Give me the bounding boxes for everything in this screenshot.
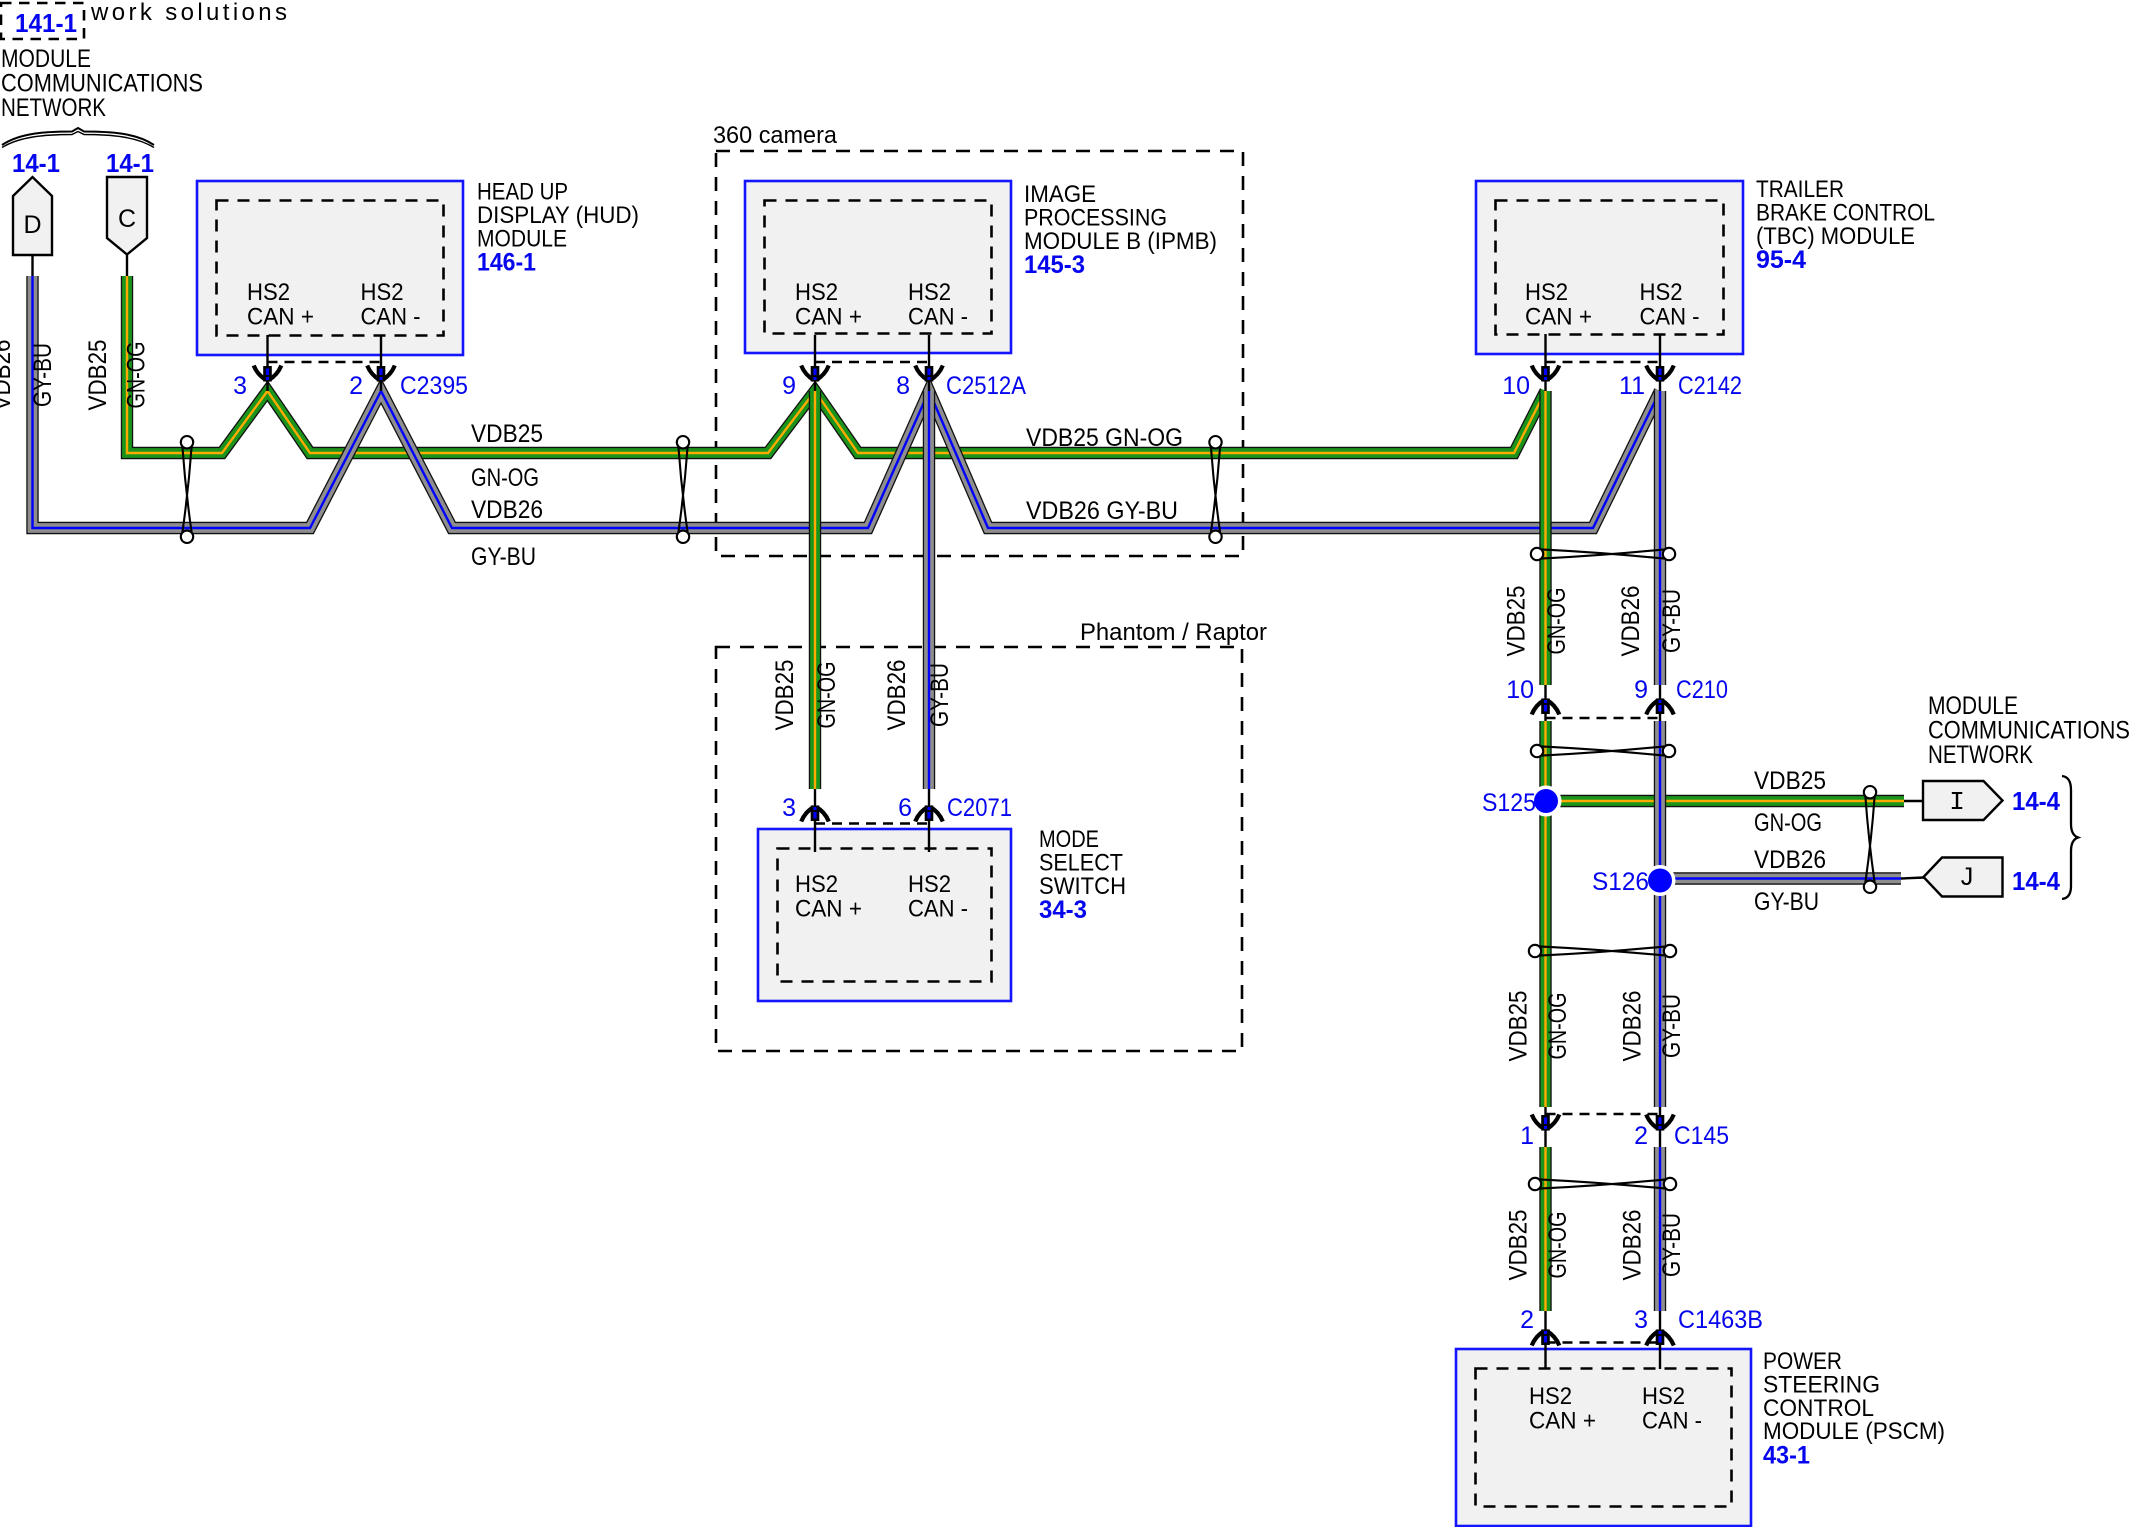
svg-text:GN-OG: GN-OG bbox=[1543, 588, 1571, 655]
splice S125 bbox=[1531, 786, 1562, 817]
off-page connector D bbox=[13, 177, 52, 255]
wire VDB25 GN-OG drop to mode select switch bbox=[809, 391, 821, 789]
svg-text:360 camera: 360 camera bbox=[713, 122, 838, 149]
connector C2512A dashed link bbox=[815, 361, 929, 363]
svg-text:GN-OG: GN-OG bbox=[1544, 993, 1572, 1060]
svg-text:VDB26: VDB26 bbox=[1619, 991, 1647, 1062]
svg-text:146-1: 146-1 bbox=[477, 249, 536, 277]
svg-text:3: 3 bbox=[1634, 1306, 1648, 1334]
connector C2071 dashed link bbox=[815, 822, 929, 824]
svg-text:C2395: C2395 bbox=[400, 372, 468, 400]
module TRAILER BRAKE CONTROL (TBC) box bbox=[1476, 181, 1743, 354]
connector C210 pin 10 terminal arrow bbox=[1532, 699, 1560, 715]
svg-text:GY-BU: GY-BU bbox=[1658, 589, 1686, 653]
off-page connector C bbox=[107, 177, 147, 255]
connector C2512A pin 8 terminal arrow bbox=[915, 366, 943, 382]
wire VDB25 GN-OG segment C210 to C145 bbox=[1539, 721, 1551, 1107]
dashed region box 360 camera bbox=[716, 151, 1243, 556]
svg-text:GY-BU: GY-BU bbox=[1658, 994, 1686, 1058]
svg-text:CAN -: CAN - bbox=[1642, 1408, 1702, 1435]
svg-text:14-4: 14-4 bbox=[2012, 786, 2060, 816]
label MODULE COMMUNICATIONS NETWORK right bbox=[1928, 692, 2130, 769]
connector C lead wire bbox=[126, 255, 128, 277]
svg-text:C210: C210 bbox=[1676, 676, 1728, 704]
svg-text:34-3: 34-3 bbox=[1039, 896, 1087, 924]
svg-text:C2512A: C2512A bbox=[946, 372, 1026, 400]
svg-text:VDB25: VDB25 bbox=[1503, 586, 1531, 657]
svg-text:VDB25: VDB25 bbox=[771, 660, 799, 731]
TBC pin label HS2 CAN - bbox=[1640, 279, 1700, 331]
svg-text:9: 9 bbox=[782, 372, 796, 400]
TBC pin label HS2 CAN + bbox=[1525, 279, 1592, 331]
svg-text:VDB26: VDB26 bbox=[883, 660, 911, 731]
twisted pair symbol below C210 bbox=[1531, 745, 1675, 757]
off-page connector I bbox=[1923, 781, 2003, 820]
svg-text:GY-BU: GY-BU bbox=[926, 663, 954, 727]
svg-text:VDB26: VDB26 bbox=[471, 496, 543, 524]
svg-text:HS2: HS2 bbox=[908, 871, 951, 898]
connector C2512A pin 9 lead bbox=[814, 335, 816, 391]
connector C2142 pin 11 terminal arrow bbox=[1646, 366, 1674, 382]
svg-text:C2071: C2071 bbox=[947, 794, 1012, 822]
svg-text:S125: S125 bbox=[1482, 789, 1536, 817]
svg-text:C1463B: C1463B bbox=[1678, 1306, 1763, 1334]
svg-text:HS2: HS2 bbox=[1525, 279, 1568, 306]
wire VDB26 GY-BU splice branch to connector J bbox=[1660, 872, 1901, 884]
svg-text:2: 2 bbox=[1634, 1122, 1648, 1150]
svg-text:HS2: HS2 bbox=[1640, 279, 1683, 306]
module HEAD UP DISPLAY (HUD) box bbox=[197, 181, 463, 355]
svg-text:VDB25: VDB25 bbox=[1505, 1210, 1533, 1281]
svg-text:VDB25: VDB25 bbox=[1754, 767, 1826, 795]
svg-text:GY-BU: GY-BU bbox=[1754, 888, 1819, 916]
svg-text:14-1: 14-1 bbox=[12, 148, 60, 178]
connector I lead wire bbox=[1904, 800, 1924, 802]
label POWER STEERING CONTROL MODULE (PSCM) 43-1 bbox=[1763, 1348, 1945, 1470]
label MODE SELECT SWITCH 34-3 bbox=[1039, 826, 1126, 924]
svg-text:14-1: 14-1 bbox=[106, 148, 154, 178]
connector C2142 pin 10 lead bbox=[1544, 334, 1546, 391]
connector C2395 pin 2 lead bbox=[380, 335, 382, 391]
connector J lead wire bbox=[1901, 878, 1924, 879]
twisted pair symbol between C145 and C1463B bbox=[1529, 1178, 1676, 1190]
dashed region box Phantom / Raptor bbox=[716, 647, 1242, 1051]
svg-text:145-3: 145-3 bbox=[1024, 251, 1085, 279]
twisted pair symbol on splice branches bbox=[1864, 786, 1876, 893]
connector C145 pin 1 terminal arrow bbox=[1532, 1115, 1560, 1131]
connector C2071 pin 3 lead bbox=[814, 789, 816, 852]
svg-text:GN-OG: GN-OG bbox=[123, 342, 151, 409]
label IMAGE PROCESSING MODULE B (IPMB) 145-3 bbox=[1024, 181, 1217, 279]
svg-text:CAN +: CAN + bbox=[247, 304, 314, 331]
svg-text:Phantom / Raptor: Phantom / Raptor bbox=[1080, 619, 1267, 646]
connector C1463B dashed link bbox=[1546, 1341, 1661, 1343]
wire VDB26 GY-BU drop to mode select switch bbox=[923, 391, 935, 789]
svg-text:VDB26: VDB26 bbox=[1754, 846, 1826, 874]
svg-text:GY-BU: GY-BU bbox=[29, 343, 57, 407]
module IMAGE PROCESSING MODULE B (IPMB) box bbox=[745, 181, 1011, 353]
svg-text:HS2: HS2 bbox=[1642, 1383, 1685, 1410]
svg-text:I: I bbox=[1949, 787, 1965, 817]
wire VDB25 GN-OG drop from TBC to C210 bbox=[1539, 391, 1551, 685]
svg-text:S126: S126 bbox=[1592, 868, 1649, 896]
svg-text:GN-OG: GN-OG bbox=[1754, 809, 1822, 837]
IPMB pin label HS2 CAN + bbox=[795, 279, 862, 331]
label MODULE COMMUNICATIONS NETWORK left bbox=[1, 45, 203, 122]
IPMB pin label HS2 CAN - bbox=[908, 279, 968, 331]
connector D lead wire bbox=[31, 255, 33, 276]
grid reference box 141-1 bbox=[1, 3, 84, 39]
connector C145 pin 2 terminal arrow bbox=[1646, 1115, 1674, 1131]
connector C210 pin 9 terminal arrow bbox=[1646, 699, 1674, 715]
connector C210 pin 9 lead bbox=[1659, 685, 1661, 721]
connector C2071 pin 3 terminal arrow bbox=[801, 806, 829, 822]
svg-text:CAN +: CAN + bbox=[795, 304, 862, 331]
connector C2395 pin 3 lead bbox=[266, 335, 268, 391]
connector C1463B pin 2 lead bbox=[1544, 1311, 1546, 1369]
svg-text:VDB25: VDB25 bbox=[471, 420, 543, 448]
off-page connector J bbox=[1924, 858, 2003, 897]
connector C2512A pin 9 terminal arrow bbox=[801, 366, 829, 382]
MSS pin label HS2 CAN + bbox=[795, 871, 862, 923]
svg-text:HS2: HS2 bbox=[908, 279, 951, 306]
svg-text:GY-BU: GY-BU bbox=[1658, 1213, 1686, 1277]
svg-text:work solutions: work solutions bbox=[90, 0, 287, 26]
connector C1463B pin 3 terminal arrow bbox=[1646, 1330, 1674, 1346]
svg-text:2: 2 bbox=[349, 372, 363, 400]
svg-text:CAN +: CAN + bbox=[1525, 304, 1592, 331]
svg-text:NETWORK: NETWORK bbox=[1, 94, 106, 122]
svg-text:C145: C145 bbox=[1674, 1122, 1729, 1150]
connector C1463B pin 2 terminal arrow bbox=[1532, 1330, 1560, 1346]
svg-text:CAN +: CAN + bbox=[1529, 1408, 1596, 1435]
svg-text:VDB25: VDB25 bbox=[84, 340, 112, 411]
HUD pin label HS2 CAN + bbox=[247, 279, 314, 331]
svg-text:HS2: HS2 bbox=[1529, 1383, 1572, 1410]
wire VDB25 GN-OG splice branch to connector I bbox=[1546, 795, 1904, 807]
svg-text:C: C bbox=[118, 205, 136, 233]
svg-text:GN-OG: GN-OG bbox=[471, 464, 539, 492]
svg-text:CAN +: CAN + bbox=[795, 896, 862, 923]
twisted pair symbol below TBC bbox=[1531, 548, 1675, 560]
svg-text:2: 2 bbox=[1520, 1306, 1534, 1334]
svg-text:HS2: HS2 bbox=[247, 279, 290, 306]
svg-text:VDB26 GY-BU: VDB26 GY-BU bbox=[1026, 497, 1178, 525]
connector C145 pin 2 lead bbox=[1659, 1107, 1661, 1147]
svg-text:VDB25: VDB25 bbox=[1505, 991, 1533, 1062]
svg-text:GN-OG: GN-OG bbox=[813, 662, 841, 729]
svg-text:NETWORK: NETWORK bbox=[1928, 741, 2033, 769]
connector C210 dashed link bbox=[1546, 717, 1661, 719]
svg-text:GY-BU: GY-BU bbox=[471, 543, 536, 571]
connector C2071 pin 6 terminal arrow bbox=[915, 806, 943, 822]
svg-text:VDB26: VDB26 bbox=[1617, 586, 1645, 657]
svg-text:CAN -: CAN - bbox=[908, 896, 968, 923]
PSCM pin label HS2 CAN + bbox=[1529, 1383, 1596, 1435]
svg-text:J: J bbox=[1961, 863, 1974, 891]
svg-text:GN-OG: GN-OG bbox=[1544, 1212, 1572, 1279]
label TRAILER BRAKE CONTROL (TBC) MODULE 95-4 bbox=[1756, 176, 1935, 274]
connector C2395 dashed link bbox=[268, 361, 382, 363]
label HEAD UP DISPLAY (HUD) MODULE 146-1 bbox=[477, 179, 639, 277]
connector C2395 pin 3 terminal arrow bbox=[254, 366, 282, 382]
connector C2395 pin 2 terminal arrow bbox=[367, 366, 395, 382]
svg-text:3: 3 bbox=[782, 794, 796, 822]
connector C210 pin 10 lead bbox=[1544, 685, 1546, 721]
overbrace for network connectors bbox=[2, 128, 154, 148]
svg-text:3: 3 bbox=[233, 372, 247, 400]
module POWER STEERING CONTROL MODULE (PSCM) box bbox=[1456, 1349, 1751, 1526]
svg-text:11: 11 bbox=[1619, 372, 1645, 400]
svg-text:9: 9 bbox=[1634, 676, 1648, 704]
brace grouping 14-4 references bbox=[2062, 776, 2078, 899]
wire VDB26 GY-BU segment C210 to C145 bbox=[1654, 721, 1666, 1107]
twisted pair symbol below S126 bbox=[1529, 945, 1676, 957]
svg-text:6: 6 bbox=[898, 794, 912, 822]
twisted pair symbol on bus middle bbox=[677, 436, 689, 543]
svg-text:CAN -: CAN - bbox=[361, 304, 421, 331]
connector C2142 pin 11 lead bbox=[1659, 334, 1661, 391]
svg-text:CAN -: CAN - bbox=[908, 304, 968, 331]
svg-text:VDB26: VDB26 bbox=[1619, 1210, 1647, 1281]
PSCM pin label HS2 CAN - bbox=[1642, 1383, 1702, 1435]
svg-text:10: 10 bbox=[1502, 372, 1530, 400]
connector C1463B pin 3 lead bbox=[1659, 1311, 1661, 1369]
svg-text:CAN -: CAN - bbox=[1640, 304, 1700, 331]
wire VDB26 GY-BU segment C145 to C1463B bbox=[1654, 1147, 1666, 1311]
svg-text:HS2: HS2 bbox=[361, 279, 404, 306]
svg-text:VDB26: VDB26 bbox=[0, 340, 16, 411]
HUD pin label HS2 CAN - bbox=[361, 279, 421, 331]
connector C145 pin 1 lead bbox=[1544, 1107, 1546, 1147]
MSS pin label HS2 CAN - bbox=[908, 871, 968, 923]
svg-text:8: 8 bbox=[896, 372, 910, 400]
svg-text:1: 1 bbox=[1520, 1122, 1534, 1150]
svg-text:HS2: HS2 bbox=[795, 279, 838, 306]
splice S126 bbox=[1645, 865, 1676, 896]
wire VDB25 GN-OG main bus bbox=[127, 276, 1546, 453]
svg-text:VDB25 GN-OG: VDB25 GN-OG bbox=[1026, 424, 1183, 452]
svg-text:D: D bbox=[23, 211, 41, 239]
connector C145 dashed link bbox=[1546, 1113, 1661, 1115]
connector C2512A pin 8 lead bbox=[928, 335, 930, 391]
wire VDB26 GY-BU main bus bbox=[33, 276, 1661, 528]
twisted pair symbol on bus left bbox=[181, 436, 193, 543]
module MODE SELECT SWITCH box bbox=[758, 829, 1011, 1001]
svg-text:14-4: 14-4 bbox=[2012, 866, 2060, 896]
connector C2071 pin 6 lead bbox=[928, 789, 930, 852]
twisted pair symbol on bus right bbox=[1209, 436, 1221, 543]
connector C2142 dashed link bbox=[1546, 361, 1661, 363]
connector C2142 pin 10 terminal arrow bbox=[1532, 366, 1560, 382]
svg-text:HS2: HS2 bbox=[795, 871, 838, 898]
svg-text:C2142: C2142 bbox=[1678, 372, 1742, 400]
svg-text:95-4: 95-4 bbox=[1756, 246, 1806, 274]
svg-text:43-1: 43-1 bbox=[1763, 1442, 1810, 1470]
wire VDB26 GY-BU drop from TBC to C210 bbox=[1654, 391, 1666, 685]
wire VDB25 GN-OG segment C145 to C1463B bbox=[1539, 1147, 1551, 1311]
svg-text:141-1: 141-1 bbox=[15, 8, 77, 38]
svg-text:10: 10 bbox=[1506, 676, 1534, 704]
